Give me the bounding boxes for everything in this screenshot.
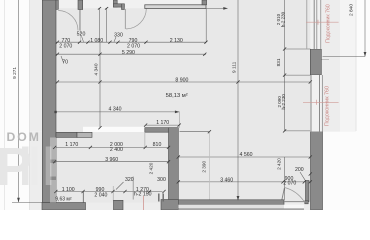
svg-text:200: 200 [295,167,304,173]
svg-text:2 040: 2 040 [94,193,107,199]
svg-text:1 080: 1 080 [90,38,103,44]
svg-text:9 271: 9 271 [12,67,18,79]
svg-text:2 420: 2 420 [277,158,282,170]
svg-text:4 340: 4 340 [94,63,100,75]
svg-text:4 340: 4 340 [109,106,122,112]
svg-text:58,13 м²: 58,13 м² [166,93,188,99]
svg-text:300: 300 [157,177,166,183]
svg-text:2 840: 2 840 [349,4,355,16]
svg-text:9 111: 9 111 [232,61,238,73]
svg-text:5 290: 5 290 [122,50,135,56]
svg-text:9,63 м²: 9,63 м² [55,197,72,203]
svg-text:h-2 150: h-2 150 [134,192,152,198]
svg-text:h-2 230: h-2 230 [281,94,286,110]
svg-text:831: 831 [276,58,281,66]
svg-text:Подоконник 760: Подоконник 760 [325,86,331,126]
svg-text:2 070: 2 070 [59,43,72,49]
svg-text:4 560: 4 560 [240,152,253,158]
svg-text:2 400: 2 400 [110,147,123,153]
svg-text:3 960: 3 960 [105,157,118,163]
svg-text:320: 320 [125,177,134,183]
svg-text:2 420: 2 420 [148,162,153,174]
svg-text:Подоконник 760: Подоконник 760 [325,4,331,43]
svg-text:1 170: 1 170 [65,142,78,148]
svg-text:2 130: 2 130 [170,38,183,44]
svg-text:8 900: 8 900 [175,78,188,84]
svg-text:2 390: 2 390 [202,161,207,173]
svg-text:3 460: 3 460 [220,177,233,183]
svg-text:2 070: 2 070 [127,43,140,49]
svg-text:2 070: 2 070 [283,181,296,187]
svg-text:1 100: 1 100 [62,187,75,193]
svg-text:330: 330 [114,33,123,39]
svg-text:810: 810 [153,142,162,148]
svg-text:520: 520 [77,32,86,38]
svg-text:h-2 230: h-2 230 [280,11,285,27]
svg-text:70: 70 [62,59,68,65]
svg-text:1 170: 1 170 [156,120,169,126]
